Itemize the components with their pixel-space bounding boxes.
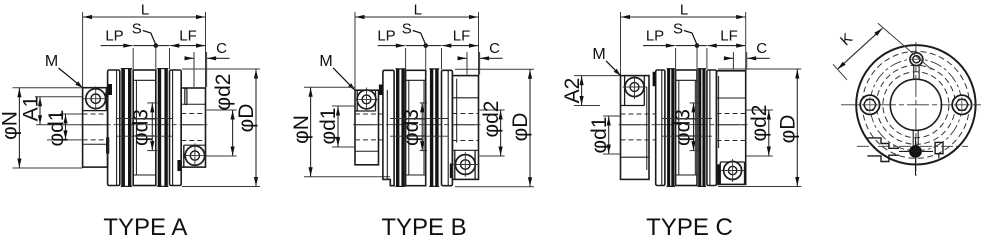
dimension phi-d2 extension lines TYPE A <box>207 109 237 111</box>
front view horizontal centerline <box>841 104 981 106</box>
front view screw section centerline <box>857 145 968 147</box>
front view bore circle <box>890 79 941 130</box>
right hub TYPE C <box>717 71 746 185</box>
S extension line TYPE A <box>155 48 157 69</box>
clamp slit left TYPE C <box>653 72 656 86</box>
svg-text:LF: LF <box>179 28 197 45</box>
dimension phi-d2 TYPE A <box>232 110 234 156</box>
dimension LF TYPE C <box>708 45 746 47</box>
dimension φN TYPE A <box>18 88 20 168</box>
svg-text:L: L <box>680 2 688 19</box>
dimension phi-D extension lines TYPE B <box>455 68 534 70</box>
svg-text:φD: φD <box>235 104 258 133</box>
svg-text:φd2: φd2 <box>480 101 503 138</box>
center spacer TYPE A <box>133 70 156 186</box>
centerline TYPE C <box>619 124 748 126</box>
front view slit at bottom screw <box>912 131 914 145</box>
front view bolt hole left <box>860 95 879 114</box>
bore hidden lines left hub TYPE A <box>83 113 108 115</box>
svg-text:M: M <box>592 46 605 63</box>
front view bolt hole right <box>952 95 971 114</box>
front view slit at top hole <box>913 66 915 79</box>
svg-text:φd1: φd1 <box>317 108 340 145</box>
LP extension line TYPE A <box>132 48 134 69</box>
svg-text:LF: LF <box>453 28 471 45</box>
svg-text:M: M <box>319 53 332 70</box>
disc packs TYPE C <box>667 68 670 187</box>
svg-text:A1: A1 <box>19 96 42 122</box>
front view vertical centerline <box>915 42 917 176</box>
bore hidden lines right hub TYPE C <box>717 113 746 115</box>
dimension LF TYPE A <box>170 45 205 47</box>
svg-text:S: S <box>402 21 412 38</box>
clamp screw right TYPE B <box>453 152 478 177</box>
svg-text:LP: LP <box>646 28 664 45</box>
clamp screw left (M) TYPE B <box>355 88 379 112</box>
right flange TYPE B <box>442 70 453 185</box>
svg-text:φN: φN <box>290 115 313 144</box>
dimension LP TYPE C <box>643 45 675 47</box>
dimension LP TYPE A <box>101 45 133 47</box>
clamp slit right TYPE C <box>717 164 720 184</box>
svg-text:L: L <box>414 2 422 19</box>
dimension φN extension lines TYPE A <box>13 87 83 89</box>
right hub TYPE A <box>181 88 205 167</box>
svg-text:C: C <box>216 40 227 57</box>
right hub TYPE B <box>452 76 478 180</box>
bore hidden lines right hub TYPE A <box>181 113 205 115</box>
front view bolt circle <box>870 59 962 151</box>
clamp slit left TYPE B <box>379 85 383 96</box>
dimension phi-d2 TYPE C <box>768 110 770 156</box>
screw seats TYPE C <box>624 76 626 106</box>
front view clamp slit right block <box>935 142 943 153</box>
svg-text:φN: φN <box>0 111 22 140</box>
svg-text:LF: LF <box>720 28 738 45</box>
right flange TYPE A <box>170 70 182 186</box>
dimension LP TYPE B <box>378 45 405 47</box>
clamp screw left (M) TYPE C <box>623 75 647 99</box>
dimension A1 TYPE A <box>39 97 41 125</box>
S extension line TYPE B <box>425 48 427 69</box>
front view top screw hole <box>909 53 924 66</box>
dimension phi-d3 TYPE B <box>420 102 428 104</box>
svg-text:φd2: φd2 <box>212 74 235 111</box>
dimension phi-d2 extension lines TYPE C <box>747 109 773 111</box>
dimension phi-d3 TYPE A <box>147 102 157 104</box>
disc packs TYPE A <box>121 68 125 187</box>
centerline TYPE A <box>81 124 208 126</box>
C extension lines TYPE C <box>732 52 734 70</box>
dimension C TYPE C <box>724 57 733 59</box>
dimension phi-D extension lines TYPE C <box>718 68 801 70</box>
svg-text:φD: φD <box>509 113 532 142</box>
dimension phi-d2 TYPE B <box>500 110 502 156</box>
C extension lines TYPE B <box>466 52 468 75</box>
clamp screw right TYPE C <box>721 159 744 182</box>
svg-text:S: S <box>132 21 142 38</box>
dimension A1 extension lines TYPE A <box>35 96 83 98</box>
clamp screw right TYPE A <box>183 143 207 167</box>
svg-text:φd1: φd1 <box>45 110 68 147</box>
svg-text:LP: LP <box>377 28 395 45</box>
S extension line TYPE C <box>696 48 698 69</box>
left hub TYPE A <box>83 88 108 167</box>
front view hidden circle d-collar <box>862 51 969 158</box>
dimension line segment TYPE B <box>406 45 442 47</box>
svg-text:φd3: φd3 <box>672 109 695 146</box>
LF extension line TYPE C <box>706 48 708 69</box>
svg-text:K: K <box>837 30 856 49</box>
bore hidden lines right hub TYPE B <box>452 113 478 115</box>
dimension L TYPE A <box>83 16 206 18</box>
LF extension line TYPE B <box>441 48 443 69</box>
dimension φN extension lines TYPE B <box>304 86 355 88</box>
dimension φd1 TYPE C <box>608 116 610 154</box>
right flange TYPE C <box>707 70 717 186</box>
dimension LF TYPE B <box>442 45 478 47</box>
svg-text:TYPE C: TYPE C <box>646 214 733 241</box>
dimension φd1 extension lines TYPE B <box>332 105 355 107</box>
disc packs TYPE B <box>396 68 399 187</box>
screw seats TYPE A <box>105 88 107 111</box>
left flange TYPE A <box>108 70 120 186</box>
dimension line segment TYPE C <box>676 45 707 47</box>
dimension L extension lines TYPE B <box>354 12 356 90</box>
dimension φd1 extension lines TYPE A <box>60 113 83 115</box>
dimension φd1 extension lines TYPE C <box>603 115 620 117</box>
dimension phi-D TYPE A <box>255 69 257 187</box>
dimension L TYPE B <box>355 16 479 18</box>
svg-text:C: C <box>756 40 767 57</box>
svg-text:S: S <box>673 21 683 38</box>
clamp slit right TYPE B <box>450 164 453 179</box>
clamp slit gap left TYPE A <box>105 93 108 101</box>
dimension L extension lines TYPE C <box>620 12 622 76</box>
svg-text:C: C <box>489 40 500 57</box>
dimension line segment TYPE A <box>133 45 169 47</box>
flange bolt lines TYPE C <box>662 118 713 120</box>
left hub TYPE B <box>355 90 379 165</box>
bore hidden lines left hub TYPE C <box>621 113 656 115</box>
dimension K <box>838 28 883 69</box>
C extension lines TYPE A <box>193 52 195 87</box>
svg-text:φd3: φd3 <box>130 109 153 146</box>
dimension L TYPE C <box>621 16 746 18</box>
dimension φd1 TYPE A <box>65 114 67 140</box>
bore hidden lines left hub TYPE B <box>355 113 383 115</box>
dimension phi-D extension lines TYPE A <box>182 68 260 70</box>
dimension A2 TYPE C <box>581 76 583 106</box>
front view clamp slit left bracket lower <box>867 155 899 161</box>
left hub TYPE C <box>621 76 650 180</box>
LP extension line TYPE B <box>405 48 407 69</box>
dimension phi-d2 extension lines TYPE B <box>480 109 505 111</box>
center spacer TYPE B <box>406 70 426 185</box>
svg-text:φd2: φd2 <box>748 105 771 142</box>
front view outer circle <box>856 45 975 164</box>
svg-text:A2: A2 <box>561 78 584 104</box>
dimension phi-D TYPE B <box>529 69 531 186</box>
left flange TYPE C <box>656 70 665 186</box>
centerline TYPE B <box>353 124 481 126</box>
svg-text:TYPE A: TYPE A <box>103 214 187 241</box>
front view hidden circle boss <box>883 72 949 138</box>
clamp slit right TYPE A <box>177 160 181 171</box>
dimension φd1 TYPE B <box>337 106 339 147</box>
svg-text:TYPE B: TYPE B <box>381 214 466 241</box>
dimension C TYPE A <box>185 57 194 59</box>
LF extension line TYPE A <box>169 48 171 69</box>
dimension phi-d3 TYPE C <box>690 102 699 104</box>
flange bolt lines TYPE A <box>117 118 173 120</box>
svg-text:φD: φD <box>777 115 800 144</box>
dimension φN TYPE B <box>310 87 312 177</box>
clamp slit left TYPE A <box>108 84 112 95</box>
svg-text:φd3: φd3 <box>400 109 423 146</box>
svg-text:M: M <box>45 53 58 70</box>
svg-text:L: L <box>141 2 149 19</box>
dimension phi-D TYPE C <box>796 69 798 187</box>
svg-text:LP: LP <box>105 28 123 45</box>
front view clamp slit left bracket upper <box>867 138 899 148</box>
screw seats TYPE B <box>356 90 358 111</box>
front view clamp screw section <box>909 145 922 158</box>
flange bolt lines TYPE B <box>390 118 448 120</box>
dimension A2 extension lines TYPE C <box>574 75 620 77</box>
LP extension line TYPE C <box>675 48 677 69</box>
center spacer TYPE C <box>676 70 697 186</box>
dimension L extension lines TYPE A <box>82 12 84 88</box>
clamp screw left (M) TYPE A <box>83 86 108 111</box>
left flange TYPE B <box>383 70 394 185</box>
svg-text:φd1: φd1 <box>588 117 611 154</box>
dimension C TYPE B <box>458 57 467 59</box>
front view hidden circle step <box>876 65 955 144</box>
